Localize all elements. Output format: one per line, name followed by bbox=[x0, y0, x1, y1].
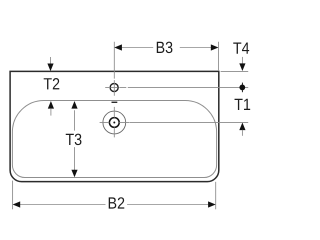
basin bowl inner outline bbox=[12, 100, 216, 177]
dimension T3 top arrowhead bbox=[71, 101, 77, 109]
dimension B2 right arrowhead bbox=[208, 201, 216, 207]
dimension T3 bottom arrowhead bbox=[71, 170, 77, 178]
top edge right extension line bbox=[221, 70, 249, 72]
basin outer outline bbox=[10, 71, 219, 181]
label T1 bbox=[235, 99, 251, 110]
dimension T2 upper arrow (down to top edge) bbox=[50, 57, 52, 64]
dimension B2 left arrowhead bbox=[13, 201, 21, 207]
drain hole center line horizontal bbox=[100, 121, 129, 123]
overflow slot bbox=[112, 102, 118, 103]
drain center right extension line bbox=[129, 121, 248, 123]
label B2 bbox=[109, 197, 125, 208]
label T4 bbox=[233, 42, 249, 53]
dimension T3 line bbox=[74, 110, 76, 170]
tap hole center line horizontal bbox=[105, 86, 126, 88]
tap hole circle bbox=[110, 84, 118, 92]
dimension B3 right arrowhead bbox=[211, 44, 219, 50]
dimension B2 left extension line bbox=[12, 181, 14, 210]
tap center right extension line bbox=[128, 86, 248, 88]
dimension B3 line bbox=[122, 47, 211, 49]
dimension B2 right extension line bbox=[215, 182, 217, 210]
dimension T2 lower arrow (up to bowl edge) bbox=[48, 101, 54, 109]
label T3 bbox=[66, 134, 82, 146]
label B3 bbox=[157, 42, 173, 54]
drain hole outer circle bbox=[103, 111, 126, 134]
tap hole center line vertical (also B3 left extension) bbox=[113, 42, 115, 96]
dimension B2 line bbox=[20, 204, 208, 206]
dimension B3 left arrowhead bbox=[114, 44, 122, 50]
drain hole center dot bbox=[113, 122, 115, 124]
label T2 bbox=[44, 78, 60, 89]
dimension T1 arrow (up to drain center line) bbox=[239, 123, 245, 131]
drain hole center line vertical bbox=[113, 107, 115, 137]
shared dimension dot T4/T1 bbox=[241, 83, 243, 93]
dimension T4 arrow (down to top edge) bbox=[241, 57, 243, 64]
drain hole inner circle bbox=[109, 118, 119, 128]
dimension B3 right extension line bbox=[218, 42, 220, 70]
